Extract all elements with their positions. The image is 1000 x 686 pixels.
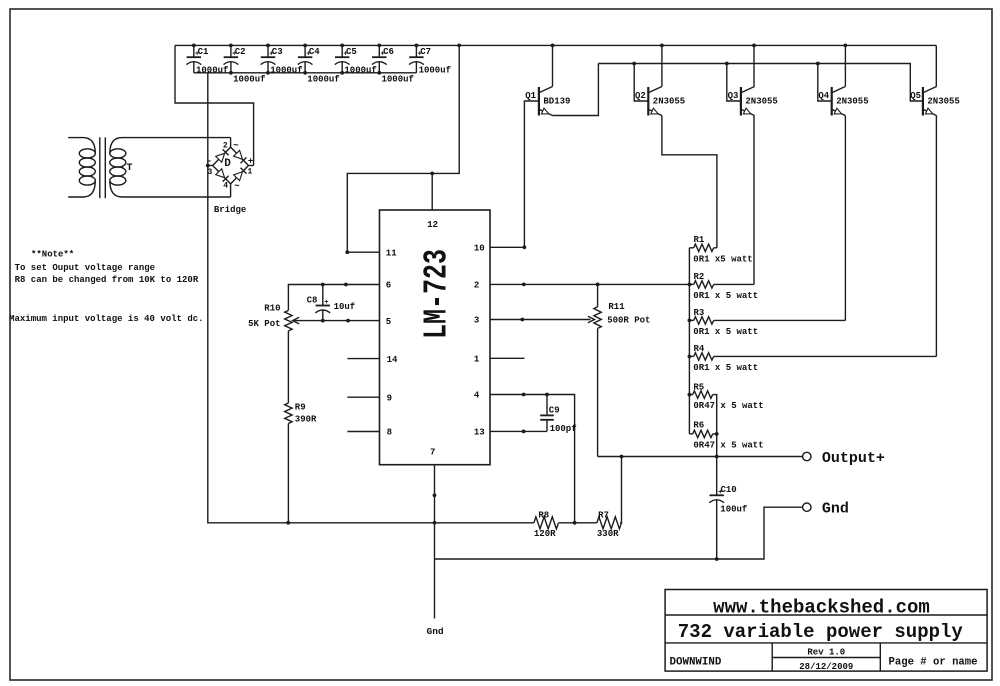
svg-text:+: + <box>232 50 236 58</box>
wire R10 to R9 <box>287 331 289 403</box>
svg-text:100uf: 100uf <box>720 504 747 514</box>
junction chain R5 left <box>688 393 692 397</box>
junction chain R4 left <box>688 355 692 359</box>
svg-text:R8 can be changed from 10K to: R8 can be changed from 10K to 120R <box>15 275 199 285</box>
wire pin 8 stub <box>347 431 379 433</box>
wire R7 right end up to output net <box>620 457 622 523</box>
resistor R2 zigzag <box>694 281 714 288</box>
svg-text:1000uf: 1000uf <box>233 74 265 84</box>
junction pin 5 wire <box>346 319 350 323</box>
svg-text:**Note**: **Note** <box>31 249 74 259</box>
wire base rail to Q2 base <box>634 64 648 102</box>
transistor Q3 2N3055 <box>728 87 778 116</box>
wire pin 6 to R10 top <box>288 285 379 311</box>
junction pin 4 wire <box>522 393 526 397</box>
wire R5 right down to output <box>713 395 717 457</box>
resistor R3 zigzag <box>694 317 714 324</box>
svg-text:BD139: BD139 <box>543 96 570 106</box>
svg-text:Rev 1.0: Rev 1.0 <box>807 648 845 658</box>
resistor R2 0R1 x 5 watt <box>689 283 693 285</box>
svg-text:R10: R10 <box>264 304 280 314</box>
capacitor C9 100pf <box>540 395 576 435</box>
svg-text:6: 6 <box>386 281 391 291</box>
resistor R7 zigzag <box>597 517 622 529</box>
wire Q3 emitter to R2 <box>753 116 755 285</box>
capacitor C1 1000uf <box>186 45 228 75</box>
capacitor C7 1000uf <box>409 45 451 75</box>
node Gnd terminal <box>803 503 811 511</box>
junction pin 6 wire <box>344 283 348 287</box>
svg-text:2N3055: 2N3055 <box>927 96 959 106</box>
transformer T <box>68 137 230 198</box>
svg-text:Gnd: Gnd <box>427 626 444 637</box>
title block <box>665 590 987 672</box>
svg-text:1000uf: 1000uf <box>307 74 339 84</box>
resistor R1 zigzag <box>694 244 714 251</box>
svg-text:To set Ouput voltage range: To set Ouput voltage range <box>15 263 155 273</box>
resistor R1 0R1 x5 watt <box>689 247 693 249</box>
svg-text:~: ~ <box>234 181 239 191</box>
svg-text:R4: R4 <box>694 344 705 354</box>
svg-text:2N3055: 2N3055 <box>836 96 868 106</box>
wire Q5 emitter to R4 <box>935 116 937 357</box>
svg-text:+: + <box>269 50 273 58</box>
svg-text:7: 7 <box>430 447 435 457</box>
svg-text:C6: C6 <box>383 47 394 57</box>
junction top rail IC supply drop <box>457 44 461 48</box>
bridge rectifier D <box>207 141 254 191</box>
junction bottom rail C3 <box>266 71 270 75</box>
wire base rail to Q5 <box>598 64 923 102</box>
svg-text:+: + <box>248 157 253 167</box>
wire Q1 emitter to base rail <box>553 64 599 116</box>
wire Q2 collector <box>661 45 663 86</box>
resistor R9 zigzag <box>285 403 292 423</box>
wire resistor chain left bus <box>688 248 690 434</box>
svg-text:1000uf: 1000uf <box>270 65 302 75</box>
svg-text:9: 9 <box>387 393 392 403</box>
svg-text:C9: C9 <box>549 406 560 416</box>
svg-text:4: 4 <box>474 391 480 401</box>
junction R7 output <box>620 455 624 459</box>
wire R11 bottom to output net <box>597 328 599 456</box>
svg-text:R9: R9 <box>295 402 306 412</box>
svg-text:2: 2 <box>223 141 228 150</box>
svg-text:1000uf: 1000uf <box>344 65 376 75</box>
svg-text:R5: R5 <box>693 383 704 393</box>
junction base rail Q3 <box>725 62 729 66</box>
junction bottom rail C6 <box>377 71 381 75</box>
wire R11 top <box>597 284 599 306</box>
capacitor C10 100uf <box>709 457 747 560</box>
junction bottom rail C2 <box>229 71 233 75</box>
junction pin 3 wire <box>520 318 524 322</box>
svg-text:Gnd: Gnd <box>822 501 849 518</box>
wire R2 right lead <box>714 283 754 285</box>
wire R6 right lead <box>713 433 717 435</box>
wire R3 right lead <box>714 319 846 321</box>
junction top rail C5 <box>340 44 344 48</box>
junction top rail C6 <box>377 44 381 48</box>
wire pin 2 to resistor chain <box>490 283 690 285</box>
wire top rail down to Q5 collector <box>935 45 937 86</box>
svg-text:Page # or name: Page # or name <box>889 656 978 668</box>
transistor Q4 2N3055 <box>818 87 868 116</box>
junction top rail Q3 collector <box>752 44 756 48</box>
resistor R5 zigzag <box>693 391 713 398</box>
svg-text:11: 11 <box>386 248 397 258</box>
wire output net horizontal <box>598 456 803 458</box>
svg-text:www.thebackshed.com: www.thebackshed.com <box>713 596 930 618</box>
wire base rail to Q4 base <box>818 64 832 102</box>
svg-text:0R1 x 5 watt: 0R1 x 5 watt <box>693 291 758 301</box>
junction R6 right <box>715 432 719 436</box>
wire pin 14 stub <box>347 358 379 360</box>
svg-text:R8: R8 <box>538 511 549 521</box>
wire pin 9 stub <box>347 396 379 398</box>
junction C8 top <box>321 283 325 287</box>
svg-text:13: 13 <box>474 428 485 438</box>
junction bottom rail C5 <box>340 71 344 75</box>
resistor R10 zigzag <box>285 310 292 330</box>
wire IC pin 7 to ground <box>434 465 436 619</box>
wire Q1 collector <box>552 45 554 86</box>
resistor R3 0R1 x 5 watt <box>689 319 693 321</box>
svg-text:R1: R1 <box>694 235 705 245</box>
junction top rail C1 <box>192 44 196 48</box>
capacitor C2 1000uf <box>224 45 266 84</box>
resistor R4 0R1 x 5 watt <box>689 355 693 357</box>
svg-text:R2: R2 <box>694 272 705 282</box>
wire top rail to bridge + terminal <box>175 45 254 165</box>
junction base rail Q4 <box>816 62 820 66</box>
junction base rail Q2 <box>632 62 636 66</box>
svg-text:DOWNWIND: DOWNWIND <box>670 656 722 668</box>
junction pin 12 branch <box>430 172 434 176</box>
resistor R4 zigzag <box>694 353 714 360</box>
transistor Q1 BD139 <box>525 87 570 116</box>
capacitor C5 1000uf <box>335 45 377 75</box>
wire bridge pin 1 lead <box>249 165 254 167</box>
svg-text:Q3: Q3 <box>728 91 739 101</box>
R10 wiper arrow <box>293 317 300 324</box>
junction R11 top <box>596 283 600 287</box>
svg-text:390R: 390R <box>295 415 317 425</box>
capacitor C8 10uf <box>307 285 356 321</box>
junction top rail C7 <box>415 44 419 48</box>
transistor Q5 2N3055 <box>910 87 960 116</box>
wire pin 11 to V+ rail <box>347 45 459 252</box>
svg-text:330R: 330R <box>597 529 619 539</box>
wire bridge pin 3 lead <box>208 165 213 167</box>
junction top rail Q1 collector <box>551 44 555 48</box>
node Output+ terminal <box>803 452 811 460</box>
capacitor C4 1000uf <box>298 45 340 84</box>
svg-text:0R1 x5 watt: 0R1 x5 watt <box>693 254 752 264</box>
junction pin 7 ground <box>433 521 437 525</box>
svg-text:D: D <box>224 158 231 170</box>
junction pin 2 wire <box>522 283 526 287</box>
wire R9 to ground <box>287 424 289 523</box>
resistor R11 zigzag <box>594 307 601 329</box>
wire capacitor bottom rail <box>194 72 417 74</box>
svg-text:0R1 x 5 watt: 0R1 x 5 watt <box>693 327 758 337</box>
svg-text:Bridge: Bridge <box>214 205 246 215</box>
svg-text:732 variable power supply: 732 variable power supply <box>678 621 964 643</box>
svg-text:1000uf: 1000uf <box>419 65 451 75</box>
svg-text:+: + <box>343 50 347 58</box>
svg-text:Output+: Output+ <box>822 450 885 467</box>
junction chain R3 left <box>688 319 692 323</box>
wire pin 3 to R11 wiper <box>490 319 591 321</box>
svg-text:2N3055: 2N3055 <box>653 96 685 106</box>
wire Q2 emitter to R1 <box>662 116 717 248</box>
R11 wiper arrow <box>588 316 595 323</box>
svg-text:C10: C10 <box>721 485 737 495</box>
junction top rail Q2 collector <box>660 44 664 48</box>
junction pin 13 wire <box>522 430 526 434</box>
svg-text:3: 3 <box>208 168 213 177</box>
junction C10 ground <box>715 557 719 561</box>
junction top rail C4 <box>303 44 307 48</box>
junction top rail C2 <box>229 44 233 48</box>
svg-text:+: + <box>195 50 199 58</box>
wire Q3 collector <box>753 45 755 86</box>
svg-text:T: T <box>127 163 133 174</box>
svg-text:Q1: Q1 <box>525 91 536 101</box>
wire pin 5 to R10 wiper <box>294 320 380 322</box>
svg-text:C1: C1 <box>198 47 209 57</box>
wire R5 left lead <box>689 394 692 396</box>
svg-text:Q2: Q2 <box>635 91 646 101</box>
capacitor C3 1000uf <box>261 45 303 75</box>
svg-text:28/12/2009: 28/12/2009 <box>799 662 853 672</box>
svg-text:5: 5 <box>386 317 391 327</box>
wire pin 10 to Q1 base <box>490 101 539 247</box>
wire R4 right lead <box>714 355 937 357</box>
transistor Q2 2N3055 <box>635 87 685 116</box>
svg-text:0R1 x 5 watt: 0R1 x 5 watt <box>693 363 758 373</box>
svg-text:R11: R11 <box>608 302 625 312</box>
svg-text:Q4: Q4 <box>818 91 829 101</box>
svg-text:120R: 120R <box>534 529 556 539</box>
svg-text:~: ~ <box>233 141 238 151</box>
svg-text:+: + <box>381 50 385 58</box>
junction bottom rail C4 <box>303 71 307 75</box>
svg-text:C3: C3 <box>272 47 283 57</box>
wire R8 to R7 segment <box>559 522 597 524</box>
svg-text:+: + <box>306 50 310 58</box>
wire R1 right lead <box>714 247 717 249</box>
svg-text:1000uf: 1000uf <box>382 74 414 84</box>
svg-text:C8: C8 <box>307 295 318 305</box>
resistor R8 zigzag <box>534 517 559 529</box>
svg-text:2N3055: 2N3055 <box>745 96 777 106</box>
junction bridge negative <box>206 164 210 168</box>
wire pin 1 stub <box>490 357 524 359</box>
svg-text:1000uf: 1000uf <box>196 65 228 75</box>
svg-text:500R Pot: 500R Pot <box>607 316 650 326</box>
junction top rail C3 <box>266 44 270 48</box>
svg-text:R6: R6 <box>693 421 704 431</box>
svg-text:12: 12 <box>427 220 438 230</box>
svg-text:10: 10 <box>474 244 485 254</box>
wire Q4 collector <box>844 45 846 86</box>
svg-text:0R47 x 5 watt: 0R47 x 5 watt <box>693 440 763 450</box>
svg-text:C4: C4 <box>309 47 320 57</box>
svg-text:Q5: Q5 <box>910 91 921 101</box>
svg-text:R7: R7 <box>598 511 609 521</box>
junction output C10 <box>715 455 719 459</box>
svg-text:14: 14 <box>387 355 398 365</box>
svg-text:+: + <box>324 299 328 307</box>
op-amp regulator U1 LM-723 <box>380 210 491 465</box>
svg-text:10uf: 10uf <box>334 302 356 312</box>
svg-text:C5: C5 <box>346 47 357 57</box>
junction pin 10 corner <box>523 245 527 249</box>
capacitor C6 1000uf <box>372 45 414 84</box>
wire R6 left lead <box>689 433 692 435</box>
junction top rail Q4 collector <box>844 44 848 48</box>
wire secondary bottom to bridge pin 4 <box>230 184 232 197</box>
svg-text:Maximum input voltage is 40 vo: Maximum input voltage is 40 volt dc. <box>9 314 203 324</box>
wire ground net to Gnd terminal <box>435 507 803 559</box>
svg-text:0R47 x 5 watt: 0R47 x 5 watt <box>693 401 763 411</box>
junction R8 R7 pin4 <box>573 521 577 525</box>
svg-text:C7: C7 <box>420 47 431 57</box>
wire pin 12 drop <box>431 173 433 210</box>
wire secondary top to bridge pin 2 <box>230 138 232 148</box>
svg-text:2: 2 <box>474 281 479 291</box>
svg-text:R3: R3 <box>694 308 705 318</box>
svg-text:1: 1 <box>474 355 480 365</box>
svg-text:C2: C2 <box>235 47 246 57</box>
svg-text:8: 8 <box>387 428 392 438</box>
svg-text:+: + <box>418 50 422 58</box>
resistor R6 zigzag <box>693 430 713 437</box>
svg-text:4: 4 <box>223 182 228 191</box>
svg-text:LM-723: LM-723 <box>418 249 455 339</box>
svg-text:1: 1 <box>248 168 253 177</box>
svg-text:100pf: 100pf <box>550 424 577 434</box>
svg-text:3: 3 <box>474 316 479 326</box>
svg-text:+: + <box>718 489 722 497</box>
junction chain R2 left <box>688 283 692 287</box>
wire pin 13 to C9 <box>490 430 547 432</box>
wire pin 4 down to R8/R7 junction <box>490 395 575 523</box>
wire ground net: bridge negative down and across to R8 <box>208 73 534 523</box>
junction pin 7 wire <box>433 493 437 497</box>
svg-text:5K Pot: 5K Pot <box>248 319 280 329</box>
junction C8 bottom <box>321 319 325 323</box>
junction R9 ground <box>286 521 290 525</box>
junction pin 11 corner <box>345 250 349 254</box>
junction C9 top <box>545 393 549 397</box>
wire Q4 emitter to R3 <box>844 116 846 321</box>
wire V+ top rail <box>175 44 936 46</box>
wire base rail to Q3 base <box>727 64 741 102</box>
